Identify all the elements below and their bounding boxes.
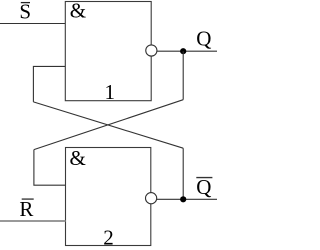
wire feedback into gate 1 second input <box>33 66 65 102</box>
svg-text:1: 1 <box>105 80 116 104</box>
NAND gate 1 body <box>65 2 151 101</box>
inversion bubble gate 2 <box>146 193 157 204</box>
wire S input <box>0 23 65 25</box>
svg-text:Q: Q <box>196 27 211 51</box>
wire Qbar output <box>157 198 217 200</box>
wire R input <box>0 220 66 222</box>
wire vertical from node Q <box>182 51 184 99</box>
label R-bar <box>19 197 33 221</box>
wire diagonal from gate1 input stub to gate2 output node <box>33 102 183 148</box>
node Qbar junction dot <box>180 196 186 202</box>
label S-bar <box>19 0 31 24</box>
inversion bubble gate 1 <box>146 45 157 56</box>
svg-text:R: R <box>19 197 33 221</box>
NAND gate 2 body <box>66 148 151 246</box>
svg-text:&: & <box>70 146 86 170</box>
svg-text:S: S <box>19 0 31 24</box>
wire diagonal from node Q down to gate 2 input stub <box>34 100 183 150</box>
node Q junction dot <box>180 48 186 54</box>
svg-text:Q: Q <box>196 175 211 199</box>
wire feedback into gate 2 second input <box>34 150 66 186</box>
wire Q output <box>157 50 217 52</box>
label Q-bar <box>196 175 212 199</box>
svg-text:2: 2 <box>103 225 114 249</box>
wire vertical down to node Qbar <box>182 148 184 199</box>
svg-text:&: & <box>70 0 86 23</box>
